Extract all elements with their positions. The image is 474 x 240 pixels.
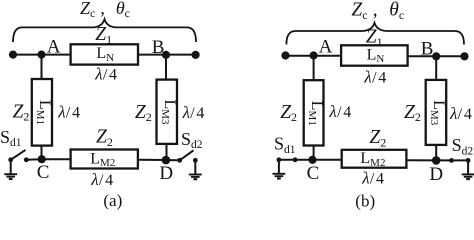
node D dot (a) [162,156,171,165]
ground under Sd1 (a) [4,173,17,175]
transmission line LM2 rect (a) [71,150,138,169]
svg-text:D: D [429,164,443,185]
transmission line LM1 rect (b) [304,80,324,145]
port dot left (a) [9,51,17,59]
transmission line LM1 rect (a) [32,79,52,146]
svg-text:λ/4: λ/4 [182,103,205,122]
wire A down to LM1 (a) [41,55,43,79]
transmission line LM2 rect (b) [342,150,407,168]
node A dot (a) [37,51,45,59]
wire LM3 down to D (a) [166,144,168,160]
svg-text:C: C [307,163,320,184]
bottom wire LM2 to D (b) [406,159,436,161]
svg-text:λ/4: λ/4 [363,67,386,86]
switch Sd1 terminal dots (a) [8,157,13,162]
wire: main line right segment (a) [138,54,196,56]
wire: main line right segment (b) [408,55,465,57]
wire B down to LM3 (a) [165,55,167,80]
switch Sd1 open (a): wire to C [26,158,41,161]
switch Sd1 terminal dots (b) [277,157,282,162]
switch Sd2 arm (a) [180,150,194,160]
transmission line LN rect (a) [71,44,138,64]
wire Sd1 to ground (a) [10,160,12,174]
switch Sd1 closed (b): wire ground terminal to C [279,159,313,161]
wire Sd1 to ground (b) [278,160,280,174]
switch Sd1 arm (a) [11,150,26,160]
ground under Sd2 (a) [189,174,202,176]
ground under Sd2 (b) [462,173,474,175]
wire: main line left segment (b) [286,55,342,57]
switch Sd2 terminal dots (b) [449,158,454,163]
svg-text:(a): (a) [103,191,122,210]
svg-text:A: A [47,36,61,57]
port dot right (b) [460,52,468,60]
node D dot (b) [432,156,441,165]
svg-text:λ/4: λ/4 [449,104,472,123]
transmission line LN rect (b) [341,45,408,65]
svg-text:λ/4: λ/4 [361,169,384,188]
brace Zc,thetac span (a) [13,19,196,42]
svg-text:λ/4: λ/4 [57,103,80,122]
svg-text:λ/4: λ/4 [328,102,351,121]
node A dot (b) [310,51,318,59]
svg-text:A: A [319,36,333,57]
svg-text:B: B [421,38,434,59]
node B dot (a) [162,51,170,59]
svg-text:λ/4: λ/4 [94,64,117,83]
port dot right (a) [192,51,200,59]
transmission line LM3 rect (b) [426,80,447,145]
brace Zc,thetac span (b) [286,23,464,45]
switch Sd2 closed (b): wire D to ground terminal [436,159,468,161]
svg-text:λ/4: λ/4 [90,170,113,189]
wire B down to LM3 (b) [435,56,437,80]
svg-text:B: B [152,37,165,58]
node B dot (b) [432,52,440,60]
wire Sd2 to ground (a) [194,160,196,174]
ground under Sd1 (b) [273,173,286,175]
node C dot (b) [308,156,316,164]
bottom wire C to LM2 (b) [313,159,342,161]
svg-text:D: D [159,163,173,184]
wire LM3 down to D (b) [435,145,437,161]
wire Sd2 to ground (b) [467,160,469,174]
bottom wire LM2 to D (a) [138,159,166,161]
svg-text:C: C [37,162,50,183]
wire LM1 down to C (a) [41,146,43,160]
wire: main line left segment (a) [13,54,71,56]
wire A down to LM1 (b) [313,56,315,80]
wire LM1 down to C (b) [313,146,315,160]
port dot left (b) [281,51,289,59]
svg-text:(b): (b) [355,192,375,211]
switch Sd2 open (a): wire from D [166,159,180,161]
switch Sd2 terminal dots (a) [177,158,182,163]
node C dot (a) [38,155,46,163]
transmission line LM3 rect (a) [157,80,178,144]
bottom wire C to LM2 (a) [42,158,71,160]
